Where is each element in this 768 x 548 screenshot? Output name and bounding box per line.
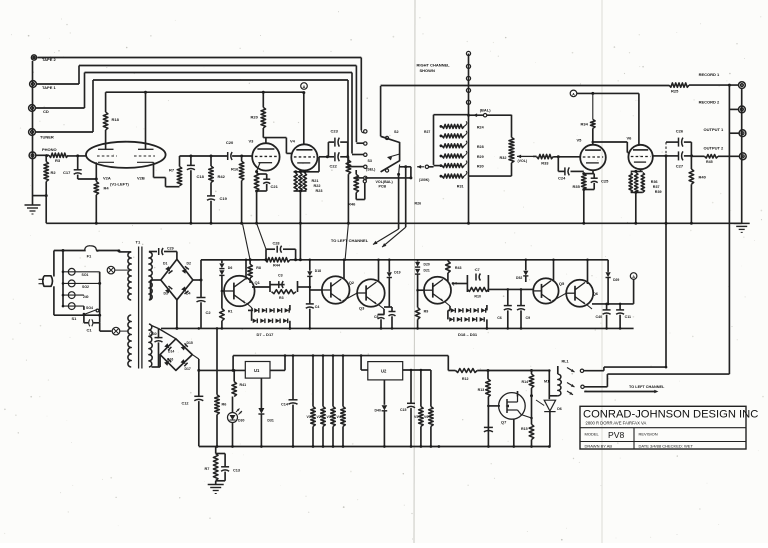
svg-text:R3: R3 bbox=[55, 158, 61, 163]
svg-text:D14: D14 bbox=[168, 350, 174, 354]
svg-text:R7: R7 bbox=[169, 168, 175, 173]
U1 output wire bbox=[270, 369, 285, 371]
svg-text:R32: R32 bbox=[500, 156, 507, 160]
capacitor C10 bbox=[391, 307, 393, 312]
svg-text:D29: D29 bbox=[613, 278, 619, 282]
transistor Q2 bbox=[322, 276, 350, 304]
capacitor C28 bypass bbox=[265, 249, 267, 260]
resistor R7 ground lift bbox=[215, 447, 217, 454]
wire Q3 collector bbox=[378, 260, 380, 282]
transistor Q6 bbox=[566, 280, 593, 307]
wire contact2 to record line bbox=[584, 386, 607, 388]
svg-text:R10: R10 bbox=[474, 294, 481, 298]
svg-text:C13: C13 bbox=[233, 469, 240, 473]
svg-text:R18: R18 bbox=[112, 117, 120, 122]
svg-text:C22: C22 bbox=[330, 164, 338, 169]
psu mid rail bbox=[161, 327, 634, 329]
svg-text:V5: V5 bbox=[414, 415, 418, 419]
T1 primary lower winding bbox=[128, 315, 131, 367]
B+ filter rail bbox=[201, 259, 260, 261]
wire output mute line bbox=[665, 156, 667, 367]
svg-text:R21: R21 bbox=[312, 179, 319, 183]
svg-text:C4: C4 bbox=[315, 305, 320, 309]
resistor R13 bbox=[486, 379, 491, 397]
svg-text:240: 240 bbox=[83, 295, 89, 299]
relay contact 2 bbox=[567, 383, 575, 388]
heater V1 bbox=[312, 356, 314, 407]
tube V3 bbox=[252, 143, 279, 170]
wire V6 cathode resistors to ground bbox=[631, 191, 643, 193]
wire contact1 to output line bbox=[584, 370, 604, 372]
wire secondary to C29 bbox=[149, 251, 157, 253]
ground symbol main bbox=[215, 481, 217, 484]
svg-text:2800 R DORR AVE FAIRFAX VA: 2800 R DORR AVE FAIRFAX VA bbox=[586, 421, 647, 426]
wire V2B cathode follower out bbox=[153, 162, 155, 177]
svg-text:C15: C15 bbox=[400, 408, 406, 412]
wire Q7 source to bus bbox=[513, 419, 515, 446]
wire tape2 bus bbox=[37, 57, 361, 59]
tapped resistor stack bbox=[440, 125, 443, 128]
bridge rectifier D1-D4 bbox=[161, 259, 193, 300]
svg-text:SO1: SO1 bbox=[82, 273, 89, 277]
svg-text:VOL(BAL): VOL(BAL) bbox=[376, 180, 394, 184]
T1 secondary HV winding bbox=[149, 252, 152, 300]
wire Q7 base bbox=[487, 397, 489, 447]
svg-text:OUTPUT 2: OUTPUT 2 bbox=[704, 146, 725, 151]
resistor R3b bbox=[272, 290, 297, 294]
svg-text:(BAL): (BAL) bbox=[480, 107, 492, 112]
capacitor C11 bbox=[619, 304, 621, 310]
svg-text:C7: C7 bbox=[475, 268, 480, 272]
svg-text:C26: C26 bbox=[676, 129, 684, 134]
capacitor C12 bbox=[198, 370, 200, 396]
svg-text:D52: D52 bbox=[516, 276, 522, 280]
wire taps bbox=[99, 272, 101, 315]
capacitor C19 bbox=[210, 183, 212, 196]
primary tap node X1 bbox=[107, 266, 115, 274]
wire bridge output bbox=[193, 279, 201, 281]
capacitor C13 bbox=[216, 453, 225, 455]
resistor R14 bbox=[531, 371, 533, 375]
regulator U2 bbox=[360, 356, 362, 370]
SCR D6 mute bbox=[548, 371, 550, 400]
svg-text:PV8: PV8 bbox=[608, 430, 624, 440]
svg-text:R34: R34 bbox=[581, 122, 589, 127]
svg-text:S3: S3 bbox=[368, 159, 372, 163]
capacitor C40 bbox=[606, 304, 608, 310]
svg-text:A: A bbox=[303, 85, 306, 89]
svg-text:Q2: Q2 bbox=[349, 280, 355, 285]
svg-text:REVISION: REVISION bbox=[639, 432, 658, 437]
svg-text:C20: C20 bbox=[226, 140, 234, 145]
svg-text:C2: C2 bbox=[206, 310, 212, 315]
svg-text:R46: R46 bbox=[348, 202, 356, 207]
diode D52 bbox=[525, 260, 527, 271]
heater V4 bbox=[342, 356, 344, 407]
tube V6 bbox=[628, 145, 652, 169]
resistor R24 bbox=[347, 157, 349, 160]
resistor R25 record bbox=[669, 83, 689, 87]
wire V5 plate to V6 grid bbox=[592, 141, 595, 144]
svg-text:D18: D18 bbox=[315, 269, 321, 273]
svg-text:S2: S2 bbox=[394, 130, 399, 134]
capacitor C29 bbox=[158, 248, 160, 255]
svg-text:SHOWN: SHOWN bbox=[420, 68, 435, 73]
svg-text:R40: R40 bbox=[699, 175, 707, 180]
svg-text:A: A bbox=[572, 92, 575, 96]
svg-text:D18 – D31: D18 – D31 bbox=[458, 332, 478, 337]
capacitor C6 bbox=[507, 289, 509, 305]
capacitor C16 bbox=[484, 426, 493, 428]
capacitor C21 bbox=[257, 173, 267, 175]
svg-text:C18: C18 bbox=[197, 174, 205, 179]
LED D30 bbox=[228, 413, 238, 423]
capacitor C25 bbox=[593, 174, 595, 179]
wire heater secondary top bbox=[152, 326, 159, 329]
svg-text:(100K): (100K) bbox=[419, 178, 429, 182]
diode D48 bbox=[309, 260, 311, 271]
wire rail to mute bbox=[447, 356, 449, 371]
relay coil M1 bbox=[532, 370, 550, 372]
svg-text:C6: C6 bbox=[497, 316, 502, 320]
svg-text:SO2: SO2 bbox=[82, 285, 89, 289]
wire to lower primary tap bbox=[99, 323, 101, 331]
svg-text:C17: C17 bbox=[63, 170, 71, 175]
svg-text:V6: V6 bbox=[424, 415, 428, 419]
svg-text:C14: C14 bbox=[281, 403, 289, 407]
switch wiper arrows bbox=[388, 154, 400, 158]
jack ground wire bbox=[741, 89, 743, 224]
title divider 2 bbox=[580, 441, 746, 443]
diode D20 D21 bbox=[417, 260, 419, 262]
wire bal node bbox=[469, 114, 484, 116]
svg-text:C24: C24 bbox=[558, 176, 566, 181]
switch S1 bbox=[83, 306, 85, 310]
switch contact 1 bbox=[364, 130, 367, 133]
ground at input jacks bbox=[25, 204, 41, 206]
diode string D18-D31 row1 bbox=[448, 309, 450, 311]
svg-text:D21: D21 bbox=[424, 269, 430, 273]
svg-text:R22: R22 bbox=[314, 184, 321, 188]
record jack RECORD 2 bbox=[739, 106, 746, 113]
resistor R3 bbox=[49, 153, 68, 157]
svg-text:D3: D3 bbox=[164, 292, 169, 296]
svg-text:C40: C40 bbox=[596, 315, 603, 319]
svg-text:D15: D15 bbox=[187, 341, 193, 345]
wire ground bus drop 3 bbox=[299, 223, 301, 259]
wire to left channel pair bbox=[398, 174, 400, 229]
wire V6 output bbox=[653, 155, 666, 157]
svg-text:RECORD 2: RECORD 2 bbox=[699, 100, 720, 105]
svg-text:R25: R25 bbox=[671, 89, 679, 94]
svg-text:Q1: Q1 bbox=[255, 280, 261, 285]
wire bridge bottom to rail bbox=[176, 300, 178, 329]
zener D31 bbox=[260, 378, 262, 408]
wire to C6 C9 bbox=[488, 288, 533, 290]
title block frame bbox=[580, 406, 746, 449]
svg-text:R9: R9 bbox=[424, 310, 429, 314]
svg-text:V2A: V2A bbox=[103, 176, 111, 181]
wire B+ rail left bbox=[106, 91, 304, 93]
capacitor C23 bbox=[327, 142, 329, 157]
wire Q2 base bbox=[310, 289, 322, 291]
transformer T1 core bbox=[138, 247, 140, 369]
wire gate bbox=[536, 400, 544, 406]
capacitor C14 bbox=[292, 356, 294, 400]
wire C20 to V3 grid bbox=[232, 155, 252, 157]
tube V5 bbox=[580, 145, 606, 171]
svg-text:V6: V6 bbox=[627, 136, 633, 141]
svg-text:D7 – D17: D7 – D17 bbox=[257, 332, 275, 337]
wire Q1 collector bbox=[245, 260, 247, 280]
resistor R41 bbox=[233, 370, 235, 381]
diode D29 bbox=[607, 260, 609, 272]
wire Q6 emitter node bbox=[587, 305, 593, 310]
diode string row2 bbox=[251, 310, 253, 320]
wire V2A plate to R18 bbox=[105, 142, 107, 149]
resistor R12 bbox=[456, 369, 478, 373]
heater V3 bbox=[332, 356, 334, 407]
resistor R6 drop bbox=[216, 328, 218, 394]
resistor R23 bbox=[303, 173, 306, 191]
output jack OUTPUT 1 bbox=[739, 130, 746, 137]
wire plug bottom bbox=[53, 286, 55, 315]
svg-text:C25: C25 bbox=[601, 179, 609, 184]
relay contact 3 bbox=[567, 391, 573, 395]
input jack TAPE 1 bbox=[30, 81, 37, 88]
wire Q1 base bbox=[221, 275, 223, 291]
svg-text:C28: C28 bbox=[273, 242, 280, 246]
svg-text:OUTPUT 1: OUTPUT 1 bbox=[704, 127, 725, 132]
diode string D18-D31 row2 bbox=[447, 310, 449, 319]
svg-text:DRAWN BY AB: DRAWN BY AB bbox=[585, 443, 613, 448]
svg-text:C27: C27 bbox=[676, 164, 684, 169]
svg-text:R42: R42 bbox=[218, 174, 226, 179]
svg-text:MODEL: MODEL bbox=[585, 432, 600, 437]
title divider 1 bbox=[580, 427, 746, 429]
resistor R43 bbox=[447, 260, 449, 261]
regulator U1 bbox=[245, 362, 270, 379]
svg-text:D31: D31 bbox=[267, 419, 273, 423]
svg-text:C19: C19 bbox=[220, 196, 228, 201]
wire Q5 collector bbox=[553, 260, 555, 282]
svg-text:R12: R12 bbox=[462, 377, 469, 381]
voltage selector lamp 3 bbox=[68, 292, 75, 299]
svg-text:R26: R26 bbox=[415, 202, 422, 206]
wire ground bus drop 1 bbox=[242, 223, 250, 259]
capacitor C2 bbox=[200, 280, 202, 298]
input jack PHONO bbox=[29, 152, 36, 159]
capacitor C26 bbox=[665, 142, 667, 156]
capacitor C22 bbox=[327, 156, 334, 158]
wire Q2 collector bbox=[343, 260, 345, 280]
resistor R36 bbox=[629, 173, 632, 193]
svg-text:CD: CD bbox=[43, 109, 49, 114]
svg-text:D17: D17 bbox=[185, 367, 191, 371]
resistor R22 bbox=[299, 173, 302, 191]
wire ground bus drop 2 bbox=[257, 223, 266, 249]
svg-text:C11: C11 bbox=[625, 315, 631, 319]
svg-text:R16: R16 bbox=[231, 167, 239, 172]
svg-text:R31: R31 bbox=[457, 185, 464, 189]
svg-text:R37: R37 bbox=[653, 185, 660, 189]
svg-text:R27: R27 bbox=[424, 130, 430, 134]
svg-text:SO4: SO4 bbox=[86, 306, 93, 310]
svg-text:R4: R4 bbox=[104, 186, 110, 191]
wire V6 plate bbox=[638, 93, 640, 144]
tube V2A V2B dual triode bbox=[86, 142, 166, 168]
wire V4 cathode node bbox=[294, 171, 307, 173]
svg-text:R1: R1 bbox=[228, 310, 233, 314]
diode D19 bbox=[388, 260, 390, 272]
resistor R10 bbox=[467, 287, 488, 291]
resistor R9 bbox=[417, 290, 419, 307]
wire grid V2A bbox=[68, 155, 86, 157]
voltage selector lamp 1 bbox=[68, 268, 75, 275]
svg-text:V2: V2 bbox=[317, 415, 321, 419]
svg-text:C9: C9 bbox=[526, 316, 531, 320]
wire V4 output bbox=[307, 171, 320, 173]
wire record line bbox=[380, 86, 382, 136]
svg-text:PHONO: PHONO bbox=[42, 147, 57, 152]
svg-text:R8: R8 bbox=[256, 266, 261, 270]
svg-text:D6: D6 bbox=[228, 266, 233, 270]
heater raw dc wire bbox=[199, 369, 246, 371]
svg-text:(VOL): (VOL) bbox=[518, 159, 528, 163]
svg-text:U2: U2 bbox=[381, 369, 387, 374]
switch contact 3 bbox=[364, 153, 367, 156]
wire raw B+ up to filter rail bbox=[200, 260, 202, 280]
wire tape1 bus bbox=[36, 83, 79, 85]
resistor R39 bbox=[641, 173, 644, 193]
T1 secondary heater winding bbox=[149, 324, 152, 367]
svg-text:Q6: Q6 bbox=[593, 291, 599, 296]
stack left feed bbox=[434, 165, 441, 167]
switch contact 4 bbox=[364, 165, 367, 168]
capacitor C20 coupling bbox=[227, 152, 229, 160]
heater V2 bbox=[322, 356, 324, 407]
svg-text:R6: R6 bbox=[222, 403, 227, 407]
balance network box bbox=[433, 115, 435, 165]
transistor Q3 bbox=[357, 279, 385, 307]
wire plug to fuse bbox=[53, 251, 55, 277]
wire cap right bracket bbox=[340, 141, 348, 143]
svg-text:V1: V1 bbox=[307, 415, 311, 419]
output jack OUTPUT 2 bbox=[739, 153, 746, 160]
svg-text:R36: R36 bbox=[651, 180, 658, 184]
svg-text:C21: C21 bbox=[271, 184, 279, 189]
svg-text:M1: M1 bbox=[544, 380, 549, 384]
record jack RECORD 1 bbox=[739, 82, 746, 89]
svg-text:R45: R45 bbox=[706, 160, 713, 164]
wire to left channel arrow bbox=[584, 391, 656, 393]
resistor R8 bbox=[249, 260, 251, 264]
wire V6 cathode bbox=[640, 169, 642, 171]
resistor R18 plate load bbox=[105, 92, 107, 112]
svg-text:D30: D30 bbox=[238, 419, 244, 423]
capacitor C1 bbox=[83, 314, 85, 323]
ground at output jacks bbox=[734, 222, 750, 224]
svg-text:R15: R15 bbox=[521, 427, 528, 431]
capacitor C9 bbox=[520, 289, 522, 305]
svg-text:R20: R20 bbox=[251, 115, 259, 120]
scan fold line bbox=[414, 0, 415, 543]
svg-text:C23: C23 bbox=[331, 129, 339, 134]
relay contact 1 bbox=[567, 368, 575, 373]
node A supply output bbox=[630, 273, 637, 280]
svg-text:V4: V4 bbox=[290, 139, 296, 144]
fuse F1 bbox=[85, 246, 100, 251]
volume pot R32 bbox=[509, 137, 514, 162]
wire A to node bbox=[633, 279, 635, 304]
wire R8 to Q1 bbox=[249, 278, 251, 283]
svg-text:RL1: RL1 bbox=[562, 360, 569, 364]
input jack TUNER bbox=[29, 129, 36, 136]
primary tap node X2 bbox=[112, 327, 120, 335]
connector pins to PCB bbox=[468, 54, 470, 116]
signal ground bus bbox=[46, 222, 742, 224]
wire Q2 emitter to Q3 base bbox=[343, 293, 358, 301]
svg-text:C1: C1 bbox=[87, 328, 93, 333]
resistor R4 cathode bbox=[94, 182, 99, 195]
svg-text:RECORD 1: RECORD 1 bbox=[699, 72, 720, 77]
heater V5 bbox=[420, 370, 422, 407]
svg-text:R2: R2 bbox=[51, 170, 57, 175]
resistor R2 bbox=[45, 156, 47, 162]
svg-text:R30: R30 bbox=[477, 165, 484, 169]
resistor R7 bbox=[179, 156, 181, 167]
resistor R20 plate load V3 bbox=[262, 92, 264, 107]
resistor R33 bbox=[537, 154, 554, 158]
capacitor C24 grid-cathode bbox=[557, 157, 559, 172]
svg-text:R23: R23 bbox=[316, 189, 323, 193]
svg-text:R24: R24 bbox=[477, 126, 485, 130]
switch S2 wafer bbox=[381, 136, 400, 172]
wire Q1 out node bbox=[252, 286, 270, 288]
transistor Q1 bbox=[224, 276, 255, 307]
svg-text:F1: F1 bbox=[87, 254, 92, 259]
transistor Q5 bbox=[533, 278, 558, 303]
AC plug bbox=[43, 276, 53, 287]
svg-text:V2B: V2B bbox=[137, 176, 145, 181]
svg-text:C12: C12 bbox=[182, 402, 189, 406]
scan fold line 2 bbox=[601, 0, 603, 543]
capacitor C8 bbox=[378, 314, 384, 316]
svg-text:TO LEFT CHANNEL: TO LEFT CHANNEL bbox=[629, 385, 665, 389]
svg-text:R43: R43 bbox=[455, 266, 462, 270]
T1 primary upper winding bbox=[128, 252, 131, 300]
wire ground bus drop 4 bbox=[345, 223, 348, 261]
svg-text:D20: D20 bbox=[424, 263, 430, 267]
wire V2A cathode bbox=[95, 162, 97, 179]
svg-text:V5: V5 bbox=[577, 138, 583, 143]
svg-text:R7: R7 bbox=[205, 467, 210, 471]
bridge rectifier D14-D17 bbox=[160, 339, 192, 371]
wire V3 plate to V4 grid bbox=[265, 138, 267, 144]
tube V4 bbox=[291, 144, 317, 170]
svg-text:R3: R3 bbox=[279, 296, 284, 300]
heater V6 bbox=[430, 370, 432, 407]
capacitor C15 bbox=[410, 370, 412, 403]
svg-text:R39: R39 bbox=[655, 190, 662, 194]
capacitor C3 bbox=[270, 284, 285, 286]
transistor Q4 bbox=[424, 277, 451, 304]
switch contact 2 bbox=[364, 142, 367, 145]
svg-text:R13: R13 bbox=[478, 388, 485, 392]
wire primary top bbox=[119, 251, 131, 253]
resistor R42 bbox=[210, 156, 212, 166]
resistor R35 bbox=[582, 174, 587, 190]
